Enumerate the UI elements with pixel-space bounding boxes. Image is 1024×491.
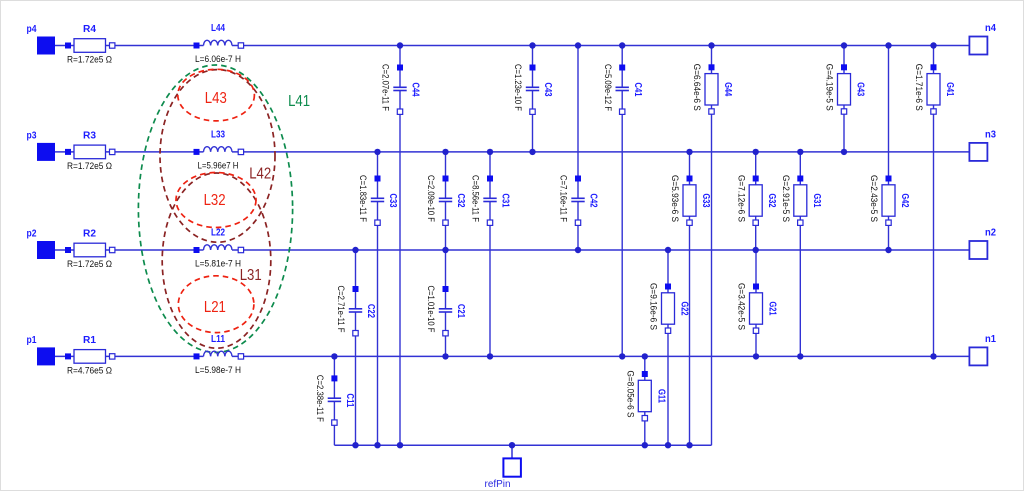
svg-text:G32: G32: [766, 194, 777, 208]
wire row p1 left segment (port to inductor): [55, 355, 204, 357]
wire column C11: [333, 356, 335, 445]
wire column C31: [489, 152, 491, 357]
conductor G43: [825, 64, 866, 114]
wire row p4 right segment (inductor to port n4): [232, 45, 969, 47]
wire column G22: [667, 250, 669, 445]
svg-text:G33: G33: [700, 194, 711, 208]
svg-text:G44: G44: [722, 82, 733, 96]
junction node row p2 x=668.0: [665, 247, 671, 253]
svg-text:C41: C41: [632, 83, 643, 97]
svg-text:C44: C44: [410, 83, 421, 97]
junction node bus x=644.8: [642, 442, 648, 448]
svg-text:C33: C33: [387, 194, 398, 208]
svg-text:R=1.72e5 Ω: R=1.72e5 Ω: [67, 160, 112, 171]
conductor G44: [692, 64, 733, 114]
svg-text:G31: G31: [811, 194, 822, 208]
svg-text:R1: R1: [83, 335, 97, 346]
svg-text:C11: C11: [344, 393, 355, 407]
svg-text:G42: G42: [899, 194, 910, 208]
junction node bus x=689.5: [686, 442, 692, 448]
svg-text:C=2.07e-11 F: C=2.07e-11 F: [381, 64, 392, 111]
svg-text:G=4.19e-5 S: G=4.19e-5 S: [825, 64, 836, 111]
wire column C41: [621, 46, 623, 357]
junction node row p1 x=756.0: [753, 353, 759, 359]
junction node row p2 x=888.5: [885, 247, 891, 253]
coupling ellipse L43: [178, 69, 255, 121]
wire column G43: [843, 46, 845, 152]
junction node row p4 x=844.0: [841, 42, 847, 48]
junction node bus x=355.5: [352, 442, 358, 448]
svg-text:n4: n4: [985, 23, 996, 34]
wire column G41: [933, 46, 935, 357]
wire column G42: [888, 46, 890, 251]
port p3: [27, 131, 56, 161]
inductor L11: [194, 334, 244, 375]
junction node row p4 x=888.5: [885, 42, 891, 48]
junction node row p2 x=445.5: [442, 247, 448, 253]
svg-text:p4: p4: [27, 24, 37, 35]
svg-text:L44: L44: [211, 23, 225, 34]
junction node row p2 x=578.0: [575, 247, 581, 253]
capacitor C42: [559, 175, 599, 225]
junction node bus x=668.0: [665, 442, 671, 448]
wire column C32: [445, 152, 447, 250]
junction node row p1 x=490.0: [487, 353, 493, 359]
svg-text:L41: L41: [288, 93, 310, 110]
capacitor C41: [603, 64, 643, 114]
coupling ellipse L41: [138, 65, 292, 352]
svg-text:p2: p2: [27, 229, 37, 240]
svg-text:C=8.56e-11 F: C=8.56e-11 F: [471, 175, 482, 222]
ground bus wire: [334, 444, 711, 446]
coupling ellipse L42: [160, 70, 275, 243]
svg-text:R4: R4: [83, 24, 97, 35]
wire column G11: [644, 356, 646, 445]
svg-text:n2: n2: [985, 228, 996, 239]
svg-text:L22: L22: [211, 228, 225, 239]
refPin stem wire: [511, 445, 513, 458]
wire column C42: [577, 46, 579, 251]
capacitor C22: [336, 286, 376, 336]
capacitor C44: [381, 64, 421, 114]
svg-text:G=8.05e-6 S: G=8.05e-6 S: [626, 371, 637, 418]
inductor L33: [194, 130, 244, 171]
svg-text:n1: n1: [985, 334, 996, 345]
junction node row p3 x=377.5: [374, 149, 380, 155]
junction node row p4 x=933.5: [930, 42, 936, 48]
svg-text:L32: L32: [204, 192, 226, 209]
junction node bus x=377.5: [374, 442, 380, 448]
wire row p4 left segment (port to inductor): [55, 45, 204, 47]
wire row p3 right segment (inductor to port n3): [232, 151, 969, 153]
svg-text:refPin: refPin: [485, 479, 511, 490]
svg-text:L=5.96e7 H: L=5.96e7 H: [198, 159, 239, 170]
svg-text:G43: G43: [855, 82, 866, 96]
junction node row p3 x=800.3: [797, 149, 803, 155]
svg-text:C31: C31: [500, 194, 511, 208]
wire column G44: [711, 46, 713, 446]
conductor G41: [914, 64, 955, 114]
svg-text:G=9.16e-6 S: G=9.16e-6 S: [649, 283, 660, 330]
inductor L22: [194, 228, 244, 269]
svg-text:C=2.38e-11 F: C=2.38e-11 F: [315, 375, 326, 422]
resistor R2: [65, 229, 115, 270]
svg-text:L43: L43: [205, 90, 227, 107]
conductor G21: [737, 283, 778, 333]
junction node row p3 x=532.5: [529, 149, 535, 155]
svg-text:R=4.76e5 Ω: R=4.76e5 Ω: [67, 364, 112, 375]
svg-text:L=5.81e-7 H: L=5.81e-7 H: [195, 258, 241, 269]
junction node row p2 x=755.7: [753, 247, 759, 253]
svg-text:G41: G41: [944, 82, 955, 96]
junction node row p4 x=578.0: [575, 42, 581, 48]
wire row p1 right segment (inductor to port n1): [232, 355, 969, 357]
port p4: [27, 24, 56, 54]
junction node row p3 x=689.5: [686, 149, 692, 155]
port p2: [27, 229, 56, 259]
port n2: [969, 228, 996, 260]
svg-text:G22: G22: [679, 302, 690, 316]
svg-text:C=1.01e-10 F: C=1.01e-10 F: [426, 286, 437, 333]
wire column G33: [689, 152, 691, 445]
conductor G11: [626, 371, 667, 421]
svg-text:G=1.71e-6 S: G=1.71e-6 S: [914, 64, 925, 111]
svg-text:C=5.09e-12 F: C=5.09e-12 F: [603, 64, 614, 111]
svg-text:G=2.43e-5 S: G=2.43e-5 S: [869, 175, 880, 222]
svg-text:C21: C21: [455, 304, 466, 318]
svg-text:G21: G21: [767, 302, 778, 316]
wire column C21: [445, 250, 447, 356]
svg-text:C43: C43: [542, 83, 553, 97]
svg-text:p3: p3: [27, 131, 37, 142]
svg-text:C=2.09e-10 F: C=2.09e-10 F: [426, 175, 437, 222]
junction node row p1 x=644.8: [642, 353, 648, 359]
capacitor C21: [426, 286, 466, 336]
wire row p2 left segment (port to inductor): [55, 249, 204, 251]
svg-text:R2: R2: [83, 229, 97, 240]
svg-text:C=2.71e-11 F: C=2.71e-11 F: [336, 286, 347, 333]
svg-text:C=7.16e-11 F: C=7.16e-11 F: [559, 175, 570, 222]
svg-text:R=1.72e5 Ω: R=1.72e5 Ω: [67, 258, 112, 269]
junction node row p4 x=400.0: [397, 42, 403, 48]
svg-text:C42: C42: [588, 194, 599, 208]
wire column G21: [755, 250, 757, 356]
coupling ellipse L32: [176, 173, 256, 228]
svg-text:G=7.12e-6 S: G=7.12e-6 S: [736, 175, 747, 222]
junction node row p1 x=800.3: [797, 353, 803, 359]
svg-text:C32: C32: [455, 194, 466, 208]
capacitor C33: [358, 175, 398, 225]
inductor L44: [194, 23, 244, 64]
capacitor C11: [315, 375, 355, 425]
junction node row p1 x=622.2: [619, 353, 625, 359]
coupling ellipse L31: [162, 173, 271, 348]
svg-text:n3: n3: [985, 129, 996, 140]
svg-text:C=1.83e-11 F: C=1.83e-11 F: [358, 175, 369, 222]
junction node row p1 x=334.4: [331, 353, 337, 359]
resistor R1: [65, 335, 115, 376]
svg-text:L21: L21: [204, 299, 226, 316]
resistor R3: [65, 130, 115, 171]
svg-text:G11: G11: [655, 389, 666, 403]
svg-text:L42: L42: [249, 166, 271, 183]
svg-text:C=1.23e-10 F: C=1.23e-10 F: [513, 64, 524, 111]
svg-text:G=5.93e-6 S: G=5.93e-6 S: [670, 175, 681, 222]
wire row p3 left segment (port to inductor): [55, 151, 204, 153]
junction node row p3 x=445.5: [442, 149, 448, 155]
junction node row p4 x=532.5: [529, 42, 535, 48]
refPin port: [485, 458, 521, 490]
svg-text:G=2.91e-5 S: G=2.91e-5 S: [781, 175, 792, 222]
capacitor C31: [471, 175, 511, 225]
svg-text:G=3.42e-5 S: G=3.42e-5 S: [737, 283, 748, 330]
svg-text:L33: L33: [211, 130, 225, 141]
svg-text:L31: L31: [240, 267, 262, 284]
junction node row p4 x=711.5: [708, 42, 714, 48]
junction node row p3 x=844.0: [841, 149, 847, 155]
junction node row p2 x=355.5: [352, 247, 358, 253]
port p1: [27, 335, 56, 365]
port n4: [969, 23, 996, 55]
junction node bus x=512.0: [509, 442, 515, 448]
svg-text:L11: L11: [211, 334, 225, 345]
junction node row p1 x=445.5: [442, 353, 448, 359]
wire column C33: [377, 152, 379, 445]
conductor G32: [736, 175, 777, 225]
resistor R4: [65, 24, 115, 65]
port n1: [969, 334, 996, 366]
svg-text:R3: R3: [83, 130, 97, 141]
wire column C43: [532, 46, 534, 152]
wire column G32: [755, 152, 757, 250]
junction node row p1 x=933.5: [930, 353, 936, 359]
junction node row p3 x=490.0: [487, 149, 493, 155]
conductor G22: [649, 283, 690, 333]
svg-text:L=6.06e-7 H: L=6.06e-7 H: [195, 53, 241, 64]
wire column C44: [399, 46, 401, 446]
coupling ellipse L21: [178, 276, 254, 333]
svg-text:G=6.64e-6 S: G=6.64e-6 S: [692, 64, 703, 111]
port n3: [969, 129, 996, 161]
conductor G33: [670, 175, 711, 225]
junction node row p4 x=622.2: [619, 42, 625, 48]
wire row p2 right segment (inductor to port n2): [232, 249, 969, 251]
svg-text:C22: C22: [365, 304, 376, 318]
capacitor C32: [426, 175, 466, 225]
capacitor C43: [513, 64, 553, 114]
junction node row p3 x=755.7: [753, 149, 759, 155]
conductor G31: [781, 175, 822, 225]
svg-text:R=1.72e5 Ω: R=1.72e5 Ω: [67, 54, 112, 65]
conductor G42: [869, 175, 910, 225]
wire column G31: [799, 152, 801, 357]
wire column C22: [355, 250, 357, 445]
svg-text:L=5.98e-7 H: L=5.98e-7 H: [195, 364, 241, 375]
junction node bus x=400.0: [397, 442, 403, 448]
svg-text:p1: p1: [27, 335, 37, 346]
